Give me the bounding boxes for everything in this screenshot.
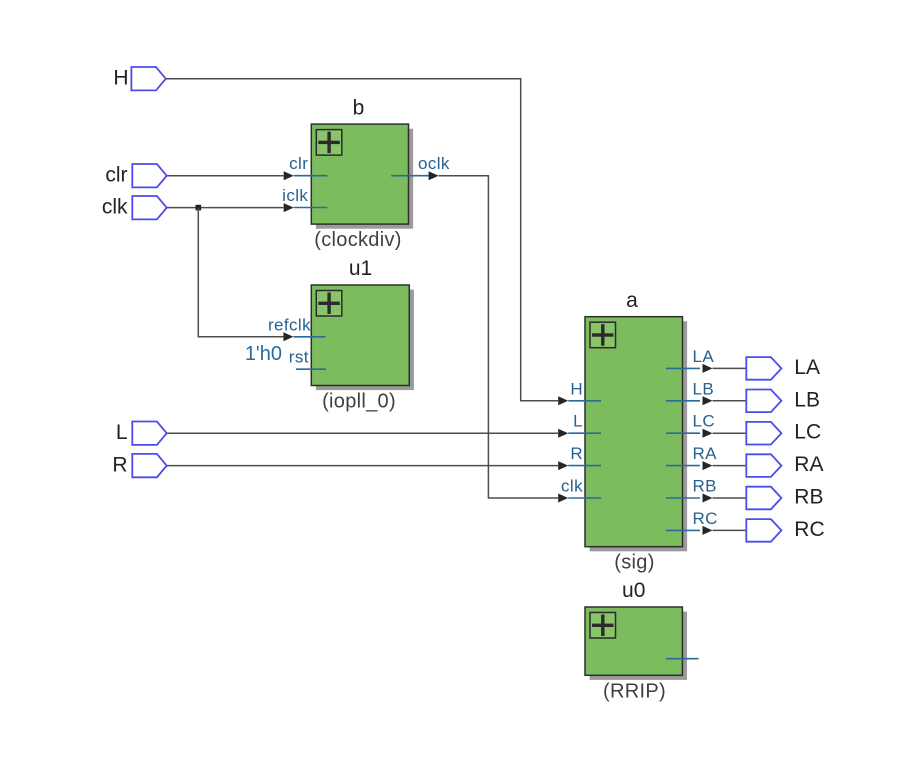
pin stub unconnected output of u0: [666, 658, 699, 660]
wire net RA: [703, 461, 747, 470]
wire net clr: [167, 171, 294, 180]
pin stub LC of a: [666, 432, 700, 434]
svg-text:clk: clk: [561, 477, 583, 496]
output port RA: [746, 453, 823, 477]
wire net RB: [703, 494, 747, 503]
wire net RC: [703, 526, 747, 535]
svg-text:R: R: [570, 444, 583, 463]
hierarchy expand icon on a: [590, 322, 616, 348]
input port clk: [102, 196, 167, 220]
pin stub LB of a: [666, 400, 700, 402]
pin stub L of a: [568, 432, 601, 434]
pin stub LA of a: [666, 367, 700, 369]
hierarchy expand icon on u1: [316, 291, 342, 317]
svg-text:u0: u0: [622, 579, 645, 602]
wire net clk branch to refclk: [198, 208, 293, 342]
svg-text:L: L: [573, 412, 583, 431]
svg-text:H: H: [113, 67, 128, 90]
output port LB: [746, 388, 820, 412]
svg-text:iclk: iclk: [282, 186, 308, 205]
pin stub RA of a: [666, 465, 700, 467]
input port clr: [105, 164, 166, 188]
wire net H: [166, 79, 568, 406]
pin stub clr of b: [294, 175, 328, 177]
module b (clockdiv): [311, 124, 413, 229]
wire net LC: [703, 429, 747, 438]
svg-text:LC: LC: [693, 412, 716, 431]
svg-text:RC: RC: [794, 518, 824, 541]
pin stub oclk of b: [391, 175, 429, 177]
input port H: [113, 67, 165, 91]
pin stub refclk of u1: [293, 336, 325, 338]
output port RB: [746, 486, 823, 510]
svg-text:(sig): (sig): [614, 552, 654, 574]
output port LC: [746, 421, 821, 445]
svg-text:oclk: oclk: [418, 154, 450, 173]
svg-text:(RRIP): (RRIP): [603, 680, 666, 702]
svg-text:refclk: refclk: [268, 315, 311, 334]
input port L: [116, 421, 167, 445]
wire net LA: [703, 364, 747, 373]
pin stub H of a: [568, 400, 601, 402]
pin stub iclk of b: [294, 207, 328, 209]
svg-text:LB: LB: [693, 379, 715, 398]
wire net LB: [703, 396, 747, 405]
pin stub rst of u1: [296, 368, 326, 370]
wire net oclk: [429, 171, 569, 502]
pin stub clk of a: [568, 497, 601, 499]
output port RC: [746, 518, 824, 542]
wire net clk to iclk: [167, 203, 294, 212]
pin stub RB of a: [666, 497, 700, 499]
svg-text:R: R: [112, 454, 127, 477]
svg-text:rst: rst: [289, 348, 309, 367]
svg-text:clk: clk: [102, 196, 128, 219]
wire net R: [167, 461, 569, 470]
pin stub RC of a: [666, 529, 700, 531]
svg-text:RC: RC: [693, 509, 718, 528]
svg-text:(iopll_0): (iopll_0): [322, 391, 396, 413]
svg-text:LC: LC: [794, 421, 821, 444]
module u0 (RRIP): [585, 607, 687, 680]
output port LA: [746, 356, 820, 380]
module u1 (iopll_0): [311, 285, 414, 390]
svg-text:LA: LA: [693, 347, 715, 366]
wire net L: [167, 429, 569, 438]
svg-text:(clockdiv): (clockdiv): [314, 229, 401, 251]
svg-text:clr: clr: [105, 164, 127, 187]
svg-text:1'h0: 1'h0: [245, 343, 282, 365]
svg-text:L: L: [116, 421, 128, 444]
svg-text:LB: LB: [794, 388, 820, 411]
svg-text:b: b: [353, 96, 365, 119]
svg-text:H: H: [570, 379, 583, 398]
hierarchy expand icon on b: [316, 130, 342, 156]
svg-text:a: a: [626, 289, 638, 312]
svg-text:RA: RA: [693, 444, 718, 463]
junction clk net: [196, 205, 202, 211]
svg-text:RA: RA: [794, 453, 823, 476]
svg-text:clr: clr: [289, 154, 308, 173]
svg-text:u1: u1: [349, 257, 372, 280]
svg-text:RB: RB: [794, 486, 823, 509]
pin stub R of a: [568, 465, 601, 467]
svg-text:RB: RB: [693, 477, 717, 496]
svg-text:LA: LA: [794, 356, 820, 379]
input port R: [112, 454, 166, 478]
module a (sig): [585, 317, 687, 552]
hierarchy expand icon on u0: [590, 613, 616, 639]
